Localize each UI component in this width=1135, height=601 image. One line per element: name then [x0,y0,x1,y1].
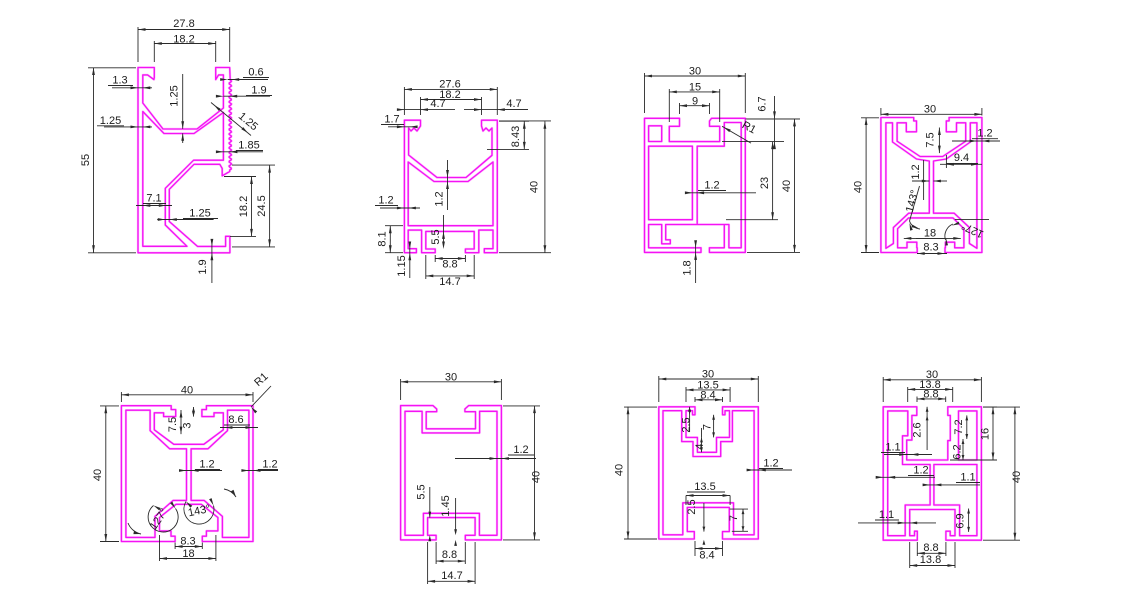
dim 30 [882,377,884,402]
dim 55 left [88,67,136,69]
svg-text:1.25: 1.25 [100,115,121,127]
profile P5 40x40 section [121,406,253,542]
dim 2.5 vertical top [689,407,691,432]
dim 7 vertical bottom [730,508,748,510]
svg-text:1.45: 1.45 [440,495,452,516]
profile P3 40x30 section with I-web [645,118,746,252]
dim 5.5 vertical [429,487,431,518]
dim 1.25 vertical center [182,74,184,129]
dim 1.2 web [923,160,925,200]
dim 8.8 [434,255,436,262]
svg-text:4.7: 4.7 [506,98,521,110]
dim 6.9 vertical [968,509,970,532]
svg-text:9: 9 [692,95,698,107]
dim 23 vertical [726,219,778,221]
svg-text:40: 40 [529,181,541,193]
profile P4 40x30 section with center T-slot [881,118,982,253]
dim 30 [658,376,660,402]
dim 13.8 [907,387,909,402]
dim 24.5 vertical right [232,164,275,166]
dim 27.8 top [137,27,139,62]
dim 40 left [100,405,119,407]
svg-text:1.15: 1.15 [396,255,408,276]
svg-text:15: 15 [689,81,701,93]
dim 40 right [983,406,1020,408]
dim 4.7 R [464,109,528,111]
svg-text:8.3: 8.3 [923,242,938,254]
svg-text:40: 40 [781,180,793,192]
svg-text:1.9: 1.9 [197,259,209,274]
svg-text:8.3: 8.3 [180,536,195,548]
dim 16 vertical [983,406,997,408]
dim 8.4 [694,397,696,402]
svg-text:13.8: 13.8 [920,554,941,566]
svg-text:1.8: 1.8 [682,260,694,275]
profile P1 55x27.8 rail section [138,68,232,253]
svg-text:8.8: 8.8 [923,542,938,554]
svg-text:24.5: 24.5 [256,195,268,216]
svg-text:8.4: 8.4 [699,550,714,562]
dim 2.6 vertical [926,407,928,450]
dim 30 [880,108,882,116]
dim 8.3 [174,543,176,550]
svg-text:1.85: 1.85 [238,140,259,152]
svg-text:27.8: 27.8 [173,18,194,30]
svg-text:6.7: 6.7 [757,96,769,111]
svg-text:4: 4 [694,443,706,449]
dim 4 vertical top [701,437,703,452]
svg-text:1.25: 1.25 [189,208,210,220]
dim 6.2 vertical [962,439,964,460]
dim 18.2 [153,41,155,62]
svg-text:9.4: 9.4 [954,152,969,164]
svg-text:2.5: 2.5 [686,499,698,514]
dim 40 top [120,392,122,402]
svg-text:8.8: 8.8 [442,549,457,561]
svg-text:1.2: 1.2 [434,191,446,206]
svg-text:1.2: 1.2 [910,164,922,179]
svg-text:40: 40 [614,464,626,476]
dim 27.6 [403,87,405,115]
dim 1.15 vertical [409,243,411,278]
dim 1.25 diagonal [211,103,251,136]
dim 40 right [503,405,540,407]
svg-text:1.3: 1.3 [112,75,127,87]
dim 9 [679,103,681,114]
dim 1.2 C vertical [447,160,449,210]
dim 127 angle [955,219,989,221]
svg-text:0.6: 0.6 [248,67,263,79]
dim 8.8 bottom [916,542,918,556]
dim 40 left [861,117,879,119]
dim 8.8 [916,397,918,403]
dim 18 [159,535,161,561]
dim 13.8 bottom [909,542,911,568]
svg-text:40: 40 [531,471,543,483]
svg-text:6.9: 6.9 [955,513,967,528]
svg-text:30: 30 [689,65,701,77]
svg-text:1.1: 1.1 [960,472,975,484]
dim 8.4 bottom [694,541,696,556]
svg-text:1.2: 1.2 [378,195,393,207]
svg-text:6.2: 6.2 [952,444,964,459]
dim 8.1 vertical [385,225,403,227]
svg-text:18: 18 [924,228,936,240]
svg-text:1.1: 1.1 [879,509,894,521]
svg-text:1.9: 1.9 [251,85,266,97]
dim 6.7 vertical [746,118,800,120]
svg-text:8.4: 8.4 [700,389,715,401]
svg-text:13.5: 13.5 [694,481,715,493]
dim 30 [644,73,646,113]
dim 3 vertical [193,407,195,417]
profile P7 40x30 double-slot section [659,407,759,539]
svg-text:7.2: 7.2 [953,419,965,434]
svg-text:8.1: 8.1 [377,231,389,246]
svg-text:7: 7 [728,515,740,521]
svg-text:18.2: 18.2 [173,33,194,45]
svg-text:14.7: 14.7 [439,276,460,288]
dim 127 angle arc [148,506,178,532]
dim 4.7 L [398,109,455,111]
svg-text:18: 18 [182,548,194,560]
profile P8 40x30 asymmetric section [883,407,981,540]
dim 8.8 [435,542,437,564]
dim 5.5 vertical [443,215,445,245]
svg-text:5.5: 5.5 [430,229,442,244]
dim 1.9 bottom [211,239,213,283]
dim 13.5 [685,387,687,402]
svg-text:40: 40 [92,469,104,481]
svg-text:8.43: 8.43 [510,126,522,147]
svg-text:1.2: 1.2 [977,128,992,140]
dim 7.5 vertical [180,410,182,434]
svg-text:7.5: 7.5 [925,132,937,147]
svg-text:16: 16 [980,428,992,440]
dim 14.7 [425,255,427,279]
dim 8.43 vertical [499,120,529,122]
svg-text:5.5: 5.5 [416,484,428,499]
svg-text:1.2: 1.2 [704,180,719,192]
svg-text:1.2: 1.2 [513,444,528,456]
dim 1.45 vertical [455,498,457,533]
svg-text:3: 3 [182,422,194,428]
svg-text:1.25: 1.25 [169,85,181,106]
dim 18.2 [420,97,422,115]
svg-text:1.2: 1.2 [199,459,214,471]
dim 40 [499,120,551,122]
svg-text:40: 40 [1011,471,1023,483]
dim 1.8 vertical bottom [695,244,697,283]
svg-text:1.2: 1.2 [763,458,778,470]
dim R1 leader [722,126,751,143]
profile P2 40x27.6 channel section [404,120,497,253]
svg-text:1.2: 1.2 [913,465,928,477]
svg-text:40: 40 [181,384,193,396]
dim 15 [668,89,670,122]
svg-text:4.7: 4.7 [430,98,445,110]
svg-text:18.2: 18.2 [238,196,250,217]
profile P6 40x30 C-channel section [401,406,502,540]
svg-text:8.8: 8.8 [923,388,938,400]
svg-text:2.6: 2.6 [912,422,924,437]
svg-text:14.7: 14.7 [441,570,462,582]
dim 30 [400,379,402,400]
dim 2.5 vertical bottom [703,503,705,532]
svg-text:1.1: 1.1 [885,442,900,454]
svg-text:8.8: 8.8 [442,259,457,271]
dim 40 vertical [747,118,800,120]
dim R1 leader [251,386,271,407]
svg-text:30: 30 [445,371,457,383]
dim 18.2 vertical right [224,176,256,178]
dim 7 vertical top [713,415,715,438]
dim 40 left [624,406,657,408]
svg-text:55: 55 [80,154,92,166]
dim 7.5 vertical [938,128,940,154]
dim 143 angle [910,186,920,221]
svg-text:2.5: 2.5 [681,417,693,432]
svg-text:30: 30 [924,104,936,116]
svg-text:7.1: 7.1 [146,193,161,205]
svg-text:8.6: 8.6 [228,414,243,426]
svg-text:1.7: 1.7 [384,114,399,126]
svg-text:7: 7 [702,424,714,430]
dim 143 angle arc [184,502,214,525]
svg-text:40: 40 [853,181,865,193]
svg-text:23: 23 [759,177,771,189]
svg-text:7.5: 7.5 [167,417,179,432]
dim 14.7 [427,542,429,584]
dim 7.2 vertical [966,415,968,439]
svg-text:1.2: 1.2 [262,459,277,471]
